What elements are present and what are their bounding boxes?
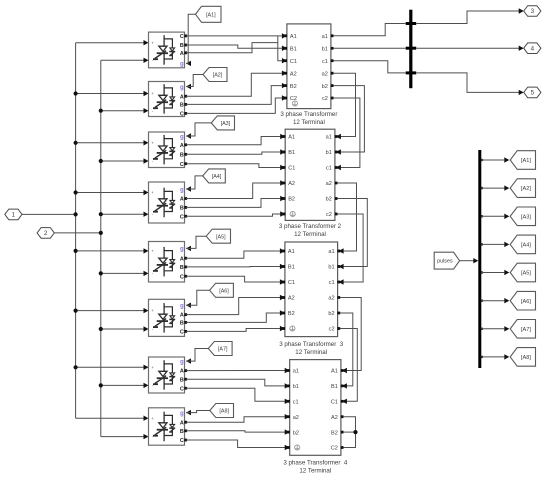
arrowhead bbox=[144, 108, 149, 113]
svg-text:C1: C1 bbox=[331, 400, 338, 406]
arrowhead bbox=[144, 190, 149, 195]
arrowhead bbox=[144, 434, 149, 439]
svg-text:g: g bbox=[180, 411, 184, 417]
wire (T1.b2 to T2.b1) bbox=[333, 86, 364, 152]
svg-text:pulses: pulses bbox=[437, 259, 453, 265]
arrowhead bbox=[144, 271, 149, 276]
junction bbox=[74, 91, 78, 95]
svg-text:g: g bbox=[180, 359, 184, 365]
svg-text:C: C bbox=[180, 330, 184, 336]
svg-text:12 Terminal: 12 Terminal bbox=[294, 231, 326, 238]
transformer T4 (3 phase Transformer 4 12 Terminal) bbox=[290, 360, 341, 456]
wire (Q6.C to T3.C2 ground port) bbox=[186, 329, 280, 332]
arrowhead bbox=[144, 40, 149, 45]
wire (bus to port 3) bbox=[416, 11, 519, 24]
transformer T2 (3 phase Transformer 2 12 Terminal) bbox=[285, 129, 335, 220]
port nub Q8 bbox=[184, 429, 187, 432]
port nub Q2 bbox=[184, 95, 187, 98]
svg-text:3 phase Transformer 3: 3 phase Transformer 3 bbox=[279, 341, 344, 348]
svg-text:[A3]: [A3] bbox=[521, 214, 531, 220]
wire (Q4.A to T2.A2) bbox=[186, 183, 281, 199]
thyristor bridge Q8 bbox=[149, 408, 185, 445]
svg-text:b2: b2 bbox=[328, 311, 334, 317]
port nub Q2 bbox=[184, 103, 187, 106]
svg-text:a2: a2 bbox=[322, 71, 328, 77]
Goto tag [A4] bbox=[510, 235, 535, 254]
thyristor bridge Q7 bbox=[149, 357, 185, 393]
arrowhead bbox=[144, 212, 149, 217]
svg-text:[A4]: [A4] bbox=[212, 174, 222, 180]
wire (demux to [A5]) bbox=[480, 271, 482, 273]
Goto tag [A8] bbox=[510, 348, 535, 367]
svg-text:B2: B2 bbox=[331, 430, 338, 436]
svg-text:C2: C2 bbox=[331, 446, 338, 452]
port nub Q5 bbox=[184, 266, 187, 269]
port nub Q3 bbox=[184, 153, 187, 156]
svg-text:c1: c1 bbox=[293, 400, 299, 406]
wire (T3.c2 to T4.C1) bbox=[340, 329, 357, 402]
port nub Q7 bbox=[184, 369, 187, 372]
svg-text:a1: a1 bbox=[326, 135, 332, 141]
gate arrowhead Q5 bbox=[186, 246, 191, 251]
wire bbox=[76, 366, 144, 368]
svg-text:12 Terminal: 12 Terminal bbox=[299, 468, 331, 475]
svg-text:[A1]: [A1] bbox=[521, 158, 531, 164]
svg-text:[A2]: [A2] bbox=[213, 73, 223, 79]
wire bbox=[101, 110, 144, 112]
wire (bus to port 5) bbox=[416, 73, 519, 93]
port nub Q5 bbox=[184, 257, 187, 260]
port nub Q4 bbox=[184, 197, 187, 200]
svg-text:[A4]: [A4] bbox=[521, 243, 531, 249]
svg-text:A: A bbox=[180, 94, 184, 100]
svg-text:3 phase Transformer: 3 phase Transformer bbox=[280, 111, 337, 118]
junction (port 2 tap) bbox=[99, 231, 103, 235]
svg-text:g: g bbox=[180, 304, 184, 310]
wire ([A8] to gate) bbox=[186, 411, 210, 413]
Goto tag [A5] bbox=[510, 263, 535, 282]
svg-text:4: 4 bbox=[531, 45, 535, 52]
wire bbox=[101, 384, 144, 386]
wire bbox=[101, 272, 144, 274]
svg-text:A: A bbox=[180, 313, 184, 319]
svg-text:c1: c1 bbox=[326, 166, 332, 172]
svg-text:3 phase Transformer 2: 3 phase Transformer 2 bbox=[279, 223, 342, 230]
svg-text:c2: c2 bbox=[329, 327, 335, 333]
wire (pulses to demux) bbox=[460, 260, 474, 262]
arrowhead bbox=[144, 158, 149, 163]
wire ([A6] to gate) bbox=[186, 290, 210, 305]
wire ([A1] to gate) bbox=[186, 14, 196, 63]
port nub Q7 bbox=[184, 387, 187, 390]
svg-text:B2: B2 bbox=[288, 311, 295, 317]
svg-text:g: g bbox=[180, 134, 184, 140]
svg-text:[A7]: [A7] bbox=[218, 347, 228, 353]
thyristor bridge Q4 bbox=[149, 182, 185, 223]
svg-text:[A6]: [A6] bbox=[219, 288, 229, 294]
svg-text:a2: a2 bbox=[326, 181, 332, 187]
port nub Q6 bbox=[184, 321, 187, 324]
svg-text:b2: b2 bbox=[322, 84, 328, 90]
wire bbox=[101, 213, 144, 215]
From tag [A2] bbox=[203, 68, 227, 82]
svg-text:A: A bbox=[180, 420, 184, 426]
svg-text:B2: B2 bbox=[290, 84, 297, 90]
port nub Q2 bbox=[184, 112, 187, 115]
svg-text:C1: C1 bbox=[288, 166, 295, 172]
wire (T2.a2 to T3.a1) bbox=[337, 183, 356, 251]
svg-text:A: A bbox=[180, 51, 184, 57]
svg-text:[A7]: [A7] bbox=[521, 327, 531, 333]
port nub Q1 bbox=[184, 44, 187, 47]
Goto tag [A1] bbox=[510, 151, 535, 170]
arrowhead bbox=[144, 365, 149, 370]
gate arrowhead Q4 bbox=[186, 186, 191, 191]
bus tick bbox=[406, 22, 417, 25]
junction bbox=[99, 212, 103, 216]
bus tick bbox=[406, 71, 417, 74]
wire (demux to [A4]) bbox=[480, 243, 482, 245]
wire (Q7.C to T4.c1) bbox=[186, 388, 285, 401]
svg-text:g: g bbox=[180, 247, 184, 253]
svg-text:a1: a1 bbox=[322, 34, 328, 40]
wire (Q2.A to T1.A2) bbox=[186, 73, 282, 96]
port nub Q5 bbox=[184, 275, 187, 278]
wire (Q1.C to T1.A1) bbox=[186, 35, 282, 37]
wire (Q5.C to T3.C1) bbox=[186, 276, 280, 282]
svg-text:B: B bbox=[180, 321, 184, 327]
port nub Q6 bbox=[184, 313, 187, 316]
junction bbox=[99, 383, 103, 387]
arrowhead bbox=[144, 140, 149, 145]
svg-text:g: g bbox=[180, 62, 184, 68]
svg-text:B: B bbox=[180, 206, 184, 212]
junction bbox=[99, 109, 103, 113]
svg-text:A: A bbox=[180, 143, 184, 149]
arrowhead bbox=[144, 416, 149, 421]
wire bbox=[76, 310, 144, 312]
svg-text:B1: B1 bbox=[290, 47, 297, 53]
wire (T3.a2 to T4.A1) bbox=[340, 298, 361, 371]
junction bbox=[74, 190, 78, 194]
wire (Q1.A to T1.C1) bbox=[186, 43, 282, 61]
Goto tag [A2] bbox=[510, 179, 535, 198]
svg-text:B1: B1 bbox=[288, 150, 295, 156]
junction bbox=[353, 430, 357, 434]
From tag [A3] bbox=[211, 116, 234, 130]
transformer T3 (3 phase Transformer 3 12 Terminal) bbox=[285, 242, 338, 337]
wire bbox=[76, 250, 144, 252]
wire (Q5.A to T3.A1) bbox=[186, 251, 280, 258]
svg-text:b1: b1 bbox=[322, 47, 328, 53]
wire (T1.c1 to bus) bbox=[333, 61, 405, 73]
wire bbox=[101, 160, 144, 162]
svg-text:g: g bbox=[180, 187, 184, 193]
gate arrowhead Q7 bbox=[186, 358, 191, 363]
Goto tag [A7] bbox=[510, 320, 535, 339]
wire (Q4.C to T2.C2 ground port) bbox=[186, 214, 281, 216]
svg-text:C: C bbox=[180, 112, 184, 118]
port nub Q1 bbox=[184, 51, 187, 54]
From tag [A5] bbox=[206, 229, 230, 243]
svg-text:C1: C1 bbox=[290, 59, 297, 65]
wire segment bbox=[277, 36, 279, 43]
wire (Q7.B to T4.b1) bbox=[186, 379, 285, 386]
junction bbox=[74, 141, 78, 145]
svg-text:A: A bbox=[180, 197, 184, 203]
wire (Q1.B to T1.B1) bbox=[186, 45, 282, 48]
wire (demux to [A7]) bbox=[480, 328, 482, 330]
svg-text:12 Terminal: 12 Terminal bbox=[293, 119, 325, 126]
svg-text:b2: b2 bbox=[293, 430, 299, 436]
svg-text:1: 1 bbox=[12, 212, 16, 219]
From tag [A7] bbox=[208, 342, 232, 356]
svg-text:B: B bbox=[180, 429, 184, 435]
thyristor bridge Q1 bbox=[149, 32, 185, 68]
svg-text:C: C bbox=[180, 438, 184, 444]
From tag [A6] bbox=[210, 283, 234, 297]
wire (Q2.C to T1.C2) bbox=[186, 98, 282, 113]
wire (bus to port 4) bbox=[416, 47, 519, 49]
svg-text:C: C bbox=[180, 214, 184, 220]
svg-text:B: B bbox=[180, 152, 184, 158]
svg-text:B: B bbox=[180, 377, 184, 383]
gate arrowhead Q8 bbox=[186, 410, 191, 415]
From tag [A1] bbox=[196, 6, 222, 22]
wire bbox=[76, 417, 144, 419]
svg-text:g: g bbox=[180, 85, 184, 91]
svg-text:[A3]: [A3] bbox=[221, 121, 231, 127]
port nub Q3 bbox=[184, 143, 187, 146]
gate arrowhead Q6 bbox=[186, 303, 191, 308]
svg-text:A1: A1 bbox=[290, 34, 297, 40]
port nub Q8 bbox=[184, 421, 187, 424]
svg-text:A: A bbox=[180, 369, 184, 375]
svg-text:A1: A1 bbox=[288, 249, 295, 255]
wire (T2.b2 to T3.b1) bbox=[337, 199, 367, 267]
arrowhead bbox=[144, 248, 149, 253]
wire (demux to [A2]) bbox=[480, 187, 482, 189]
arrowhead bbox=[144, 58, 149, 63]
svg-text:3 phase Transformer 4: 3 phase Transformer 4 bbox=[283, 460, 348, 467]
svg-text:c2: c2 bbox=[326, 212, 332, 218]
svg-text:12 Terminal: 12 Terminal bbox=[295, 349, 327, 356]
thyristor bridge Q3 bbox=[149, 132, 185, 168]
port nub Q6 bbox=[184, 330, 187, 333]
Goto tag [A6] bbox=[510, 291, 535, 310]
svg-text:B: B bbox=[180, 265, 184, 271]
svg-text:A: A bbox=[180, 256, 184, 262]
junction bbox=[74, 365, 78, 369]
port nub Q4 bbox=[184, 215, 187, 218]
output port 3 bbox=[524, 6, 541, 17]
wire (T1.c2 to T2.c1) bbox=[333, 98, 360, 168]
gate arrowhead Q3 bbox=[186, 133, 191, 138]
gate arrowhead Q2 bbox=[186, 84, 191, 89]
arrowhead bbox=[144, 383, 149, 388]
wire (Q2.B to T1.B2) bbox=[186, 86, 282, 105]
svg-text:b1: b1 bbox=[328, 265, 334, 271]
svg-text:a2: a2 bbox=[293, 415, 299, 421]
wire bbox=[76, 192, 144, 194]
From tag [A8] bbox=[210, 404, 234, 418]
wire (demux to [A8]) bbox=[480, 356, 482, 358]
wire (demux to [A1]) bbox=[480, 159, 482, 161]
junction bbox=[74, 249, 78, 253]
svg-text:c2: c2 bbox=[322, 96, 328, 102]
transformer T1 (3 phase Transformer 12 Terminal) bbox=[287, 24, 331, 109]
svg-text:B: B bbox=[180, 103, 184, 109]
svg-text:C: C bbox=[180, 386, 184, 392]
thyristor bridge Q5 bbox=[149, 242, 185, 283]
output port 4 bbox=[524, 43, 541, 54]
svg-text:2: 2 bbox=[44, 230, 48, 237]
input port 2 bbox=[37, 228, 54, 239]
output port 5 bbox=[524, 87, 541, 98]
bus tick bbox=[406, 47, 417, 50]
svg-text:[A2]: [A2] bbox=[521, 186, 531, 192]
svg-text:a2: a2 bbox=[328, 296, 334, 302]
svg-text:B1: B1 bbox=[288, 265, 295, 271]
wire ([A5] to gate) bbox=[186, 236, 206, 248]
port nub Q3 bbox=[184, 162, 187, 165]
wire (Q3.B to T2.B1) bbox=[186, 152, 281, 154]
wire ([A7] to gate) bbox=[186, 349, 208, 362]
input port 1 bbox=[5, 209, 22, 220]
junction bbox=[99, 159, 103, 163]
wire (vertical bus from port 2) bbox=[100, 60, 102, 436]
svg-text:[A6]: [A6] bbox=[521, 299, 531, 305]
port nub Q1 bbox=[184, 35, 187, 38]
gate arrowhead Q1 bbox=[186, 61, 191, 66]
wire ([A3] to gate) bbox=[186, 123, 211, 136]
wire (T4.A2-B2-C2 short) bbox=[343, 417, 355, 448]
svg-text:b1: b1 bbox=[326, 150, 332, 156]
bus bar bbox=[409, 10, 412, 89]
svg-text:C: C bbox=[180, 162, 184, 168]
arrowhead bbox=[144, 308, 149, 313]
svg-text:B2: B2 bbox=[288, 197, 295, 203]
svg-text:C: C bbox=[180, 34, 184, 40]
svg-text:5: 5 bbox=[531, 90, 535, 97]
svg-text:B: B bbox=[180, 43, 184, 49]
wire (Q4.B to T2.B2) bbox=[186, 199, 281, 208]
wire ([A4] to gate) bbox=[186, 176, 203, 189]
demux bar bbox=[478, 150, 481, 368]
svg-text:C: C bbox=[180, 274, 184, 280]
wire (Q8.C to T4.c2 ground port) bbox=[186, 440, 285, 448]
svg-text:[A1]: [A1] bbox=[206, 12, 216, 18]
wire (Q6.A to T3.A2) bbox=[186, 298, 280, 315]
From tag [A4] bbox=[203, 169, 226, 183]
Goto tag [A3] bbox=[510, 207, 535, 226]
wire (Q7.A to T4.a1) bbox=[186, 370, 285, 372]
port nub Q8 bbox=[184, 439, 187, 442]
wire (vertical bus from port 1) bbox=[75, 43, 77, 419]
thyristor bridge Q6 bbox=[149, 299, 185, 336]
svg-text:A2: A2 bbox=[290, 71, 297, 77]
wire (Q8.B to T4.b2) bbox=[186, 431, 285, 432]
wire (T3.b2 to T4.B1) bbox=[340, 313, 353, 386]
junction bbox=[74, 309, 78, 313]
wire bbox=[76, 42, 144, 44]
svg-text:[A8]: [A8] bbox=[521, 355, 531, 361]
svg-text:c1: c1 bbox=[329, 280, 335, 286]
wire (Q5.B to T3.B1) bbox=[186, 266, 280, 268]
svg-text:a1: a1 bbox=[293, 369, 299, 375]
wire (T1.b1 to bus) bbox=[333, 47, 405, 49]
arrowhead bbox=[144, 91, 149, 96]
svg-text:A1: A1 bbox=[331, 369, 338, 375]
svg-text:C1: C1 bbox=[288, 280, 295, 286]
wire bbox=[101, 436, 144, 438]
wire (T1.a2 to T2.a1) bbox=[333, 73, 355, 136]
wire (Q8.A to T4.a2) bbox=[186, 417, 285, 423]
wire bbox=[76, 142, 144, 144]
svg-text:B1: B1 bbox=[331, 384, 338, 390]
svg-text:[A5]: [A5] bbox=[216, 234, 226, 240]
wire (demux to [A3]) bbox=[480, 215, 482, 217]
port nub Q4 bbox=[184, 206, 187, 209]
svg-text:A2: A2 bbox=[288, 296, 295, 302]
pulses input tag bbox=[434, 252, 459, 269]
wire bbox=[76, 93, 144, 95]
junction bbox=[99, 327, 103, 331]
svg-text:c1: c1 bbox=[322, 59, 328, 65]
wire bbox=[54, 232, 101, 234]
port nub Q7 bbox=[184, 378, 187, 381]
svg-text:a1: a1 bbox=[328, 249, 334, 255]
svg-text:3: 3 bbox=[531, 8, 535, 15]
arrowhead bbox=[144, 326, 149, 331]
svg-text:b2: b2 bbox=[326, 197, 332, 203]
wire bbox=[101, 328, 144, 330]
junction (port 1 tap) bbox=[74, 212, 78, 216]
svg-text:A2: A2 bbox=[288, 181, 295, 187]
thyristor bridge Q2 bbox=[149, 82, 185, 117]
svg-text:A1: A1 bbox=[288, 135, 295, 141]
wire (Q3.A to T2.A1) bbox=[186, 137, 281, 145]
svg-text:b1: b1 bbox=[293, 384, 299, 390]
wire bbox=[101, 59, 144, 61]
svg-text:[A5]: [A5] bbox=[521, 271, 531, 277]
wire (T1.a1 to bus) bbox=[333, 24, 405, 36]
wire (T2.c2 to T3.c1) bbox=[337, 214, 363, 282]
wire bbox=[22, 213, 76, 215]
wire ([A2] to gate) bbox=[186, 75, 203, 87]
svg-text:[A8]: [A8] bbox=[219, 409, 229, 415]
svg-text:A2: A2 bbox=[331, 415, 338, 421]
wire (Q6.B to T3.B2) bbox=[186, 313, 280, 322]
wire (demux to [A6]) bbox=[480, 300, 482, 302]
wire (Q3.C to T2.C1) bbox=[186, 164, 281, 168]
junction bbox=[99, 271, 103, 275]
